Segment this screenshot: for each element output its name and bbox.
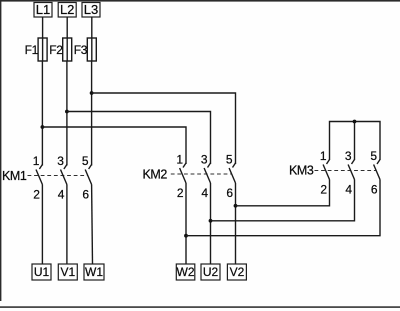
KM1 linkage dashed line — [28, 175, 89, 177]
fuse F1 — [38, 38, 47, 61]
terminal L1 — [34, 2, 52, 17]
svg-text:3: 3 — [201, 153, 208, 167]
KM3 pole 5-6 contact — [374, 160, 380, 180]
svg-text:5: 5 — [370, 149, 377, 163]
fuse F2 — [63, 38, 72, 61]
terminal U1 — [32, 264, 51, 280]
wire KM2 pin 4 to U2 — [210, 183, 212, 264]
svg-text:2: 2 — [33, 188, 40, 202]
wire F3 to KM1 pin 5 — [91, 61, 93, 166]
svg-text:4: 4 — [345, 183, 352, 197]
wire KM1 pin 4 to V1 — [66, 185, 68, 265]
KM1 pole 1-2 contact — [36, 165, 42, 185]
terminal V2 — [227, 264, 246, 280]
svg-text:3: 3 — [57, 154, 64, 168]
wire KM2 pin 2 to W2 — [185, 183, 187, 264]
wire KM3 star bar — [330, 122, 381, 161]
svg-text:6: 6 — [226, 186, 233, 200]
terminal L3 — [82, 2, 100, 17]
svg-text:6: 6 — [82, 188, 89, 202]
node KM3 star bar junction — [353, 120, 357, 124]
wire L1 branch to KM2 pin 1 — [42, 127, 186, 164]
svg-text:L1: L1 — [36, 2, 50, 17]
svg-text:W2: W2 — [177, 265, 195, 279]
node U2 junction — [209, 219, 213, 223]
KM2 linkage dashed line — [171, 173, 232, 175]
KM2 pole 3-4 contact — [204, 163, 210, 183]
wire L3 branch to KM2 pin 5 — [92, 93, 236, 164]
svg-text:2: 2 — [320, 183, 327, 197]
svg-text:KM1: KM1 — [2, 169, 27, 183]
svg-text:F1: F1 — [25, 43, 39, 57]
KM2 pole 1-2 contact — [180, 163, 186, 183]
svg-text:5: 5 — [82, 154, 89, 168]
svg-text:5: 5 — [226, 153, 233, 167]
svg-text:V1: V1 — [60, 265, 75, 279]
svg-text:2: 2 — [177, 186, 184, 200]
wire KM1 pin 2 to U1 — [41, 185, 43, 265]
wire KM3 pin 2 to V2 node — [236, 180, 330, 206]
node V2 junction — [234, 204, 238, 208]
svg-text:1: 1 — [320, 149, 327, 163]
terminal L2 — [58, 2, 76, 17]
wire L3 to fuse F3 — [91, 17, 93, 38]
svg-text:1: 1 — [33, 154, 40, 168]
KM3 pole 1-2 contact — [323, 160, 329, 180]
wire F2 to KM1 pin 3 — [66, 61, 68, 166]
svg-text:1: 1 — [176, 153, 183, 167]
wire KM1 pin 6 to W1 — [91, 185, 94, 265]
svg-text:F3: F3 — [74, 43, 88, 57]
terminal W1 — [84, 264, 104, 280]
wire L1 to fuse F1 — [42, 17, 44, 38]
svg-text:3: 3 — [345, 149, 352, 163]
node on L1 phase — [41, 125, 45, 129]
KM1 pole 5-6 contact — [85, 165, 91, 185]
svg-text:L3: L3 — [84, 2, 98, 17]
wire KM2 pin 6 to V2 — [235, 183, 237, 264]
svg-text:6: 6 — [371, 183, 378, 197]
svg-text:L2: L2 — [60, 2, 74, 17]
svg-text:KM2: KM2 — [142, 168, 167, 182]
svg-text:F2: F2 — [49, 43, 63, 57]
KM3 pole 3-4 contact — [348, 160, 354, 180]
wire KM3 pin 6 to W2 node — [186, 180, 380, 236]
svg-text:U2: U2 — [203, 265, 219, 279]
KM1 pole 3-4 contact — [61, 165, 67, 185]
terminal U2 — [201, 264, 220, 280]
svg-text:4: 4 — [58, 188, 65, 202]
svg-text:U1: U1 — [34, 265, 50, 279]
terminal W2 — [176, 264, 195, 280]
svg-text:W1: W1 — [85, 265, 103, 279]
svg-text:KM3: KM3 — [289, 164, 314, 178]
node on L2 phase — [65, 110, 69, 114]
svg-text:4: 4 — [201, 186, 208, 200]
wire KM3 pin 4 to U2 node — [211, 180, 355, 221]
wire F1 to KM1 pin 1 — [41, 61, 43, 166]
wire L2 branch to KM2 pin 3 — [67, 112, 211, 165]
wire L2 to fuse F2 — [66, 17, 68, 38]
fuse F3 — [87, 38, 96, 61]
node W2 junction — [184, 234, 188, 238]
terminal V1 — [58, 264, 77, 280]
KM3 linkage dashed line — [315, 170, 377, 172]
node on L3 phase — [90, 91, 94, 95]
svg-text:V2: V2 — [230, 265, 245, 279]
KM2 pole 5-6 contact — [229, 163, 235, 183]
